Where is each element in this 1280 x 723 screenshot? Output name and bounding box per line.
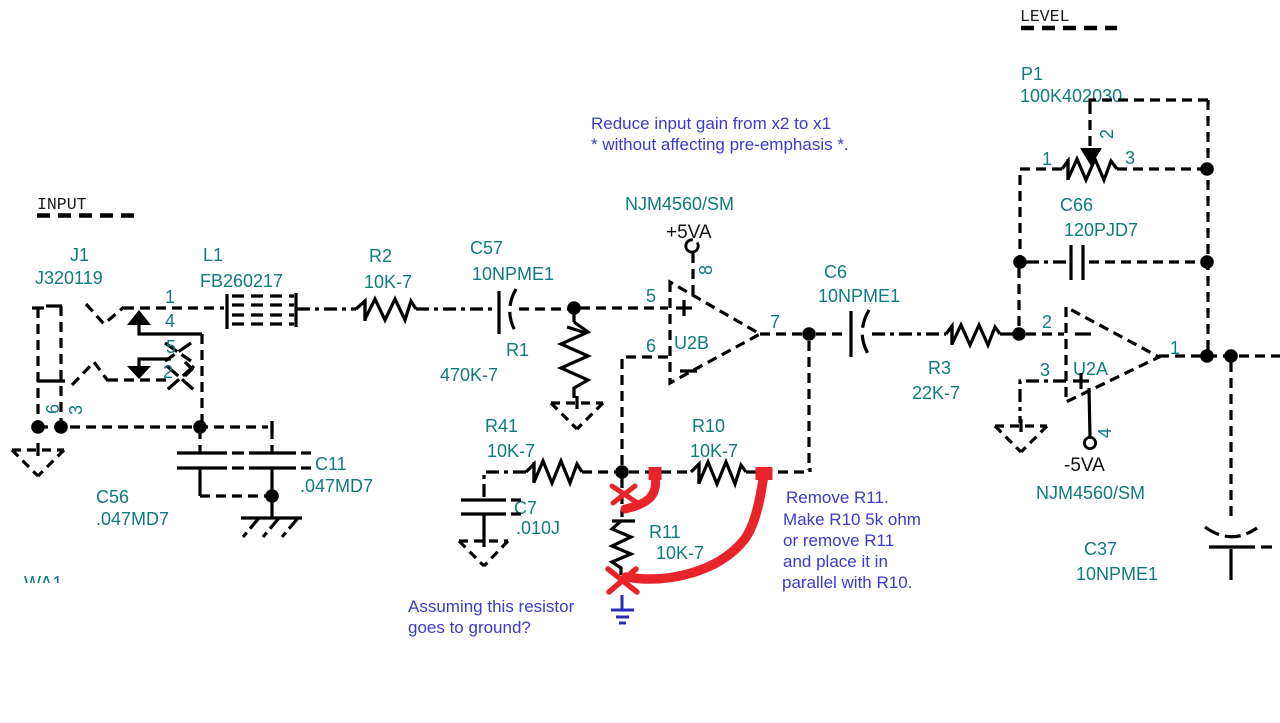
J1 pin 5 stub: [139, 359, 171, 366]
wire C57 to node: [519, 307, 570, 310]
capacitor C6: [818, 262, 900, 357]
svg-text:6: 6: [43, 404, 63, 414]
svg-text:120PJD7: 120PJD7: [1064, 220, 1138, 240]
blue note bottom left: [408, 597, 575, 637]
connector J1 labels: [35, 245, 103, 288]
wire R41 to node: [582, 470, 616, 473]
svg-text:3: 3: [1125, 148, 1135, 168]
ground symbol J1: [12, 443, 64, 476]
svg-text:LEVEL: LEVEL: [1020, 7, 1070, 26]
J1 ring arrow: [127, 366, 151, 379]
J1 ring switch contact: [72, 362, 108, 385]
svg-text:Make R10 5k ohm: Make R10 5k ohm: [783, 510, 921, 529]
J1 sleeve contact tick: [37, 379, 65, 382]
svg-text:470K-7: 470K-7: [440, 365, 498, 385]
wire node to R10: [629, 470, 691, 473]
resistor R11: [612, 521, 704, 575]
potentiometer P1 labels: [1020, 64, 1122, 106]
wire node to U2B pin5: [580, 306, 668, 309]
capacitor C66: [1026, 195, 1201, 280]
svg-text:100K402030: 100K402030: [1020, 86, 1122, 106]
U2A pin4 supply -5VA: [1064, 388, 1105, 476]
svg-text:2: 2: [163, 362, 173, 382]
svg-text:INPUT: INPUT: [37, 195, 87, 214]
resistor R10: [690, 416, 746, 484]
resistor R3: [912, 325, 1000, 403]
R11 drop wire: [620, 478, 623, 517]
svg-text:.047MD7: .047MD7: [300, 476, 373, 496]
node dot P1-3: [1200, 162, 1214, 176]
svg-text:Remove R11.: Remove R11.: [786, 488, 889, 507]
svg-text:3: 3: [1040, 360, 1050, 380]
svg-text:or remove R11: or remove R11: [783, 531, 894, 550]
op-amp U2B: [670, 282, 760, 383]
potentiometer P1 body: [1062, 159, 1117, 180]
C56/C11 bottom wire: [200, 494, 268, 497]
ground symbol U2A: [995, 419, 1047, 452]
svg-text:22K-7: 22K-7: [912, 383, 960, 403]
C7 corner wire: [484, 472, 526, 498]
svg-text:10K-7: 10K-7: [656, 543, 704, 563]
svg-text:J1: J1: [70, 245, 89, 265]
J1 pin 4 stub: [139, 325, 202, 334]
resistor R41: [485, 416, 582, 483]
resistor R2: [356, 246, 416, 321]
node dot U2B out: [802, 327, 816, 341]
svg-text:R10: R10: [692, 416, 725, 436]
C11 top tick: [270, 421, 273, 433]
red long arrow: [626, 467, 764, 579]
svg-text:4: 4: [165, 311, 175, 331]
svg-text:parallel with R10.: parallel with R10.: [782, 573, 912, 592]
svg-text:R2: R2: [369, 246, 392, 266]
J1 tip switch contact: [86, 304, 124, 324]
svg-text:2: 2: [1097, 129, 1117, 139]
wire node to U2A pin2: [1026, 332, 1064, 335]
wire node to C6: [816, 332, 847, 335]
svg-text:R41: R41: [485, 416, 518, 436]
P1 pin1 wire: [1020, 169, 1062, 256]
svg-text:-5VA: -5VA: [1064, 455, 1105, 476]
ground bus wire: [38, 425, 268, 428]
svg-text:J320119: J320119: [35, 268, 103, 288]
red X mark bottom: [608, 569, 637, 592]
capacitor C11: [249, 427, 373, 496]
svg-text:10K-7: 10K-7: [364, 272, 412, 292]
U2B pin6 feedback wire: [622, 357, 668, 468]
capacitor C56: [96, 427, 244, 529]
svg-text:C66: C66: [1060, 195, 1093, 215]
capacitor C37: [1076, 362, 1272, 584]
feedback drop wire: [807, 341, 810, 470]
svg-text:Reduce input gain from x2 to x: Reduce input gain from x2 to x1: [591, 114, 831, 133]
node dot C11 bottom: [265, 489, 279, 503]
feedback riser wire: [1017, 268, 1020, 327]
svg-text:R3: R3: [928, 358, 951, 378]
svg-text:C11: C11: [315, 454, 347, 474]
J1 pin 2 wire: [108, 378, 170, 381]
svg-text:and place it in: and place it in: [783, 552, 888, 571]
svg-text:NJM4560/SM: NJM4560/SM: [625, 194, 734, 214]
wire pin6 node to R41 row: [620, 468, 623, 472]
svg-text:5: 5: [166, 337, 176, 357]
op-amp U2A: [1066, 307, 1159, 402]
LEVEL section title: [1020, 7, 1117, 28]
svg-text:goes to ground?: goes to ground?: [408, 618, 531, 637]
node dot U2A in: [1012, 327, 1026, 341]
svg-text:U2B: U2B: [674, 333, 709, 353]
U2A pin3 wire: [1020, 381, 1066, 423]
P1 pin3 wire: [1117, 167, 1202, 170]
U2B output wire: [760, 332, 803, 335]
U2A output wire: [1159, 354, 1280, 357]
capacitor C7: [461, 498, 560, 538]
svg-text:10K-7: 10K-7: [690, 441, 738, 461]
J1 sleeve top tick: [32, 306, 44, 309]
svg-text:FB260217: FB260217: [200, 271, 283, 291]
svg-text:5: 5: [646, 286, 656, 306]
svg-text:R1: R1: [506, 340, 529, 360]
J1 pin 5 X contact: [165, 343, 191, 361]
svg-text:WA1: WA1: [24, 573, 62, 593]
svg-text:4: 4: [1095, 428, 1115, 438]
P1 wiper stem: [1088, 104, 1091, 148]
blue note top: [591, 114, 849, 154]
node dot C66 left: [1013, 255, 1027, 269]
svg-text:C37: C37: [1084, 539, 1117, 559]
capacitor C57: [470, 238, 554, 334]
blue ground symbol: [611, 595, 634, 623]
wire C6 to R3: [872, 332, 946, 335]
clipped net label WA1: [24, 573, 62, 593]
svg-text:C6: C6: [824, 262, 847, 282]
node dot out A: [1200, 349, 1214, 363]
ferrite bead L1: [227, 293, 296, 329]
wire R10 to feedback corner: [746, 468, 810, 472]
svg-text:10NPME1: 10NPME1: [472, 264, 554, 284]
node dot J1-6: [31, 420, 45, 434]
U2B supply +5VA: [666, 222, 712, 296]
svg-text:P1: P1: [1021, 64, 1043, 84]
svg-text:10NPME1: 10NPME1: [1076, 564, 1158, 584]
svg-text:8: 8: [696, 265, 716, 275]
svg-text:10K-7: 10K-7: [487, 441, 535, 461]
J1 pin 4 drop wire: [200, 334, 203, 424]
ground symbol C7: [459, 534, 508, 566]
svg-text:10NPME1: 10NPME1: [818, 286, 900, 306]
chassis ground C11: [241, 496, 302, 537]
svg-text:6: 6: [646, 336, 656, 356]
node dot pin4 bus: [193, 420, 207, 434]
svg-text:C56: C56: [96, 487, 129, 507]
svg-text:1: 1: [165, 287, 175, 307]
J1 sleeve line left: [36, 308, 39, 424]
inductor L1 labels: [200, 245, 283, 291]
blue note right: [782, 488, 921, 592]
svg-text:NJM4560/SM: NJM4560/SM: [1036, 483, 1145, 503]
red hook arrow: [625, 467, 656, 509]
ground symbol R1: [551, 396, 603, 429]
node dot out B: [1224, 349, 1238, 363]
wire R3 to node: [1000, 332, 1014, 335]
svg-text:L1: L1: [203, 245, 223, 265]
J1 tip arrow: [127, 310, 151, 325]
svg-text:2: 2: [1042, 312, 1052, 332]
svg-text:.010J: .010J: [516, 518, 560, 538]
J1 ring line: [59, 306, 62, 424]
wire R2 to C57: [416, 307, 494, 310]
svg-text:.047MD7: .047MD7: [96, 509, 169, 529]
svg-text:Assuming this resistor: Assuming this resistor: [408, 597, 575, 616]
svg-text:* without affecting pre-emphas: * without affecting pre-emphasis *.: [591, 135, 849, 154]
wire L1 to R2: [297, 307, 356, 310]
node dot R1: [567, 301, 581, 315]
J1 pin 1 wire: [124, 306, 224, 309]
resistor R1: [440, 314, 588, 398]
svg-text:C57: C57: [470, 238, 503, 258]
svg-text:U2A: U2A: [1073, 359, 1108, 379]
svg-text:R11: R11: [649, 522, 681, 542]
node dot J1-3: [54, 420, 68, 434]
svg-text:7: 7: [770, 312, 780, 332]
node dot C66 right: [1200, 255, 1214, 269]
svg-text:1: 1: [1042, 149, 1052, 169]
node dot R41/R10/R11: [615, 465, 629, 479]
J1 ring top tick: [46, 304, 62, 307]
J1 pin 2 X contact: [167, 362, 194, 390]
svg-text:3: 3: [66, 405, 86, 415]
P1 wiper arrow: [1080, 148, 1102, 166]
right bus wire: [1206, 100, 1209, 350]
P1 wiper top wire: [1090, 100, 1208, 104]
red X mark top: [612, 486, 636, 503]
INPUT section title: [37, 195, 136, 216]
